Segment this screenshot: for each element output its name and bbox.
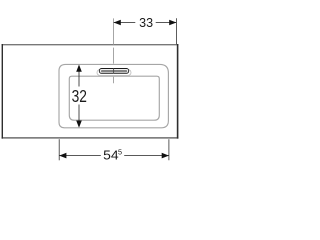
dimension 33 line — [114, 22, 177, 24]
dimension 54.5 arrow left — [59, 153, 66, 159]
overflow slot — [99, 69, 128, 74]
tap centre line across slot — [113, 68, 115, 73]
dimension 54.5 extension line left — [58, 139, 60, 160]
tap centre line — [113, 18, 115, 83]
svg-text:32: 32 — [72, 86, 87, 106]
washbasin outer rim — [59, 64, 168, 127]
dimension 32 arrow up — [76, 65, 82, 72]
countertop outline top edge — [2, 44, 179, 46]
dimension 32 line — [78, 71, 80, 121]
svg-text:54: 54 — [103, 149, 119, 163]
dimension 54.5 line — [59, 155, 169, 157]
countertop outline right edge — [177, 44, 179, 139]
countertop outline left edge — [1, 44, 3, 139]
dimension 33 extension line right — [175, 18, 177, 44]
tap hole recess — [97, 70, 131, 76]
countertop outline bottom edge — [2, 137, 179, 139]
dimension 33 arrow right — [169, 20, 176, 26]
dimension 32 arrow down — [76, 121, 82, 128]
slot inner band — [101, 70, 127, 72]
dimension 54.5 extension line right — [168, 139, 170, 160]
dimension 33 arrow left — [114, 20, 121, 26]
washbasin inner rim — [69, 76, 159, 120]
svg-text:5: 5 — [118, 148, 122, 157]
svg-text:33: 33 — [139, 16, 153, 30]
dimension 54.5 arrow right — [162, 153, 169, 159]
